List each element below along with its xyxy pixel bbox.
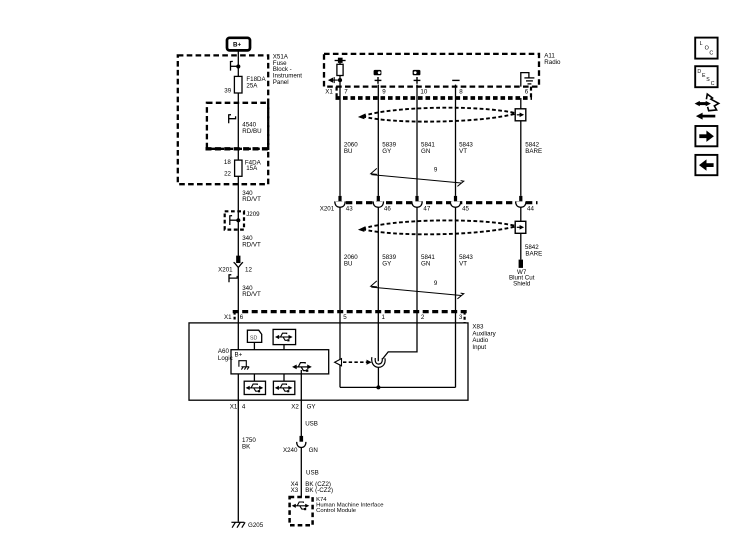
wire 2060 BU X201 to X83 pin 5 and internal run xyxy=(339,207,341,387)
radio internal supply bar at pin 7 xyxy=(335,58,346,65)
X83 connector dashed row xyxy=(233,312,469,323)
svg-text:G205: G205 xyxy=(248,522,264,529)
svg-text:X1: X1 xyxy=(230,403,238,410)
svg-text:1: 1 xyxy=(382,314,386,321)
svg-text:X2: X2 xyxy=(291,403,299,410)
svg-text:X240: X240 xyxy=(283,447,298,454)
svg-text:GN: GN xyxy=(309,447,318,454)
wire 5842 BARE X201 down to shield drain xyxy=(520,207,522,221)
shield ellipse upper xyxy=(358,108,517,122)
svg-text:Control Module: Control Module xyxy=(316,508,357,514)
svg-text:RD/VT: RD/VT xyxy=(242,291,261,298)
svg-text:USB: USB xyxy=(306,470,319,477)
svg-text:5: 5 xyxy=(343,314,347,321)
nav icon swap arrows xyxy=(695,94,719,120)
shield drain box upper xyxy=(515,109,526,121)
X83 row labels xyxy=(224,314,463,321)
svg-text:Radio: Radio xyxy=(544,59,561,66)
nav icon next page xyxy=(695,126,717,146)
svg-text:GY: GY xyxy=(382,260,391,267)
minus sign pin 8 xyxy=(452,79,459,81)
shield clamp to junction xyxy=(377,367,379,387)
X201 inline connector row xyxy=(336,201,538,204)
A11 Radio dashed box xyxy=(324,54,539,87)
plus sign pin 9 xyxy=(375,77,382,84)
X83 Auxiliary Audio Input box xyxy=(189,323,468,400)
terminal below X201 pin 12 xyxy=(229,275,237,283)
X201 pin 47 connector xyxy=(412,196,422,207)
USB port icon lower right xyxy=(273,381,294,394)
connector X240 xyxy=(283,436,318,454)
X201 pin 44 connector xyxy=(516,196,526,207)
svg-text:BU: BU xyxy=(344,148,353,155)
svg-text:Logic: Logic xyxy=(218,355,233,362)
svg-text:4: 4 xyxy=(242,403,246,410)
wire 5842 BARE to blunt cut xyxy=(520,233,522,259)
wire label 340 RD/VT (below J209) xyxy=(242,235,261,248)
wire label 4540 RD/BU xyxy=(242,122,261,135)
shield clamp coil xyxy=(372,357,385,367)
USB symbol inside K74 xyxy=(292,502,310,510)
labels X4 X3 BK (CZ2) xyxy=(291,481,333,494)
junction dot and signal arrow at pin 7 xyxy=(328,77,342,83)
wire X83 pin 1 into shield clamp xyxy=(377,312,379,362)
junction dot on ground bus xyxy=(376,385,380,389)
wire 5843 VT pin 8 down xyxy=(455,85,457,196)
svg-text:X201: X201 xyxy=(218,267,233,274)
label K74 Human Machine Interface Control Module xyxy=(316,497,384,514)
wire label 340 RD/VT (above J209) xyxy=(242,190,261,203)
label X51A Fuse Block - Instrument Panel xyxy=(273,53,303,86)
svg-text:D: D xyxy=(697,69,701,75)
X201 pin 43 connector xyxy=(335,196,345,207)
label A11 Radio xyxy=(544,52,561,66)
svg-text:RD/BU: RD/BU xyxy=(242,128,261,135)
W7 blunt cut shield termination xyxy=(509,260,535,288)
svg-text:GN: GN xyxy=(421,260,430,267)
wire 5842 BARE pin 6 down xyxy=(520,98,522,109)
svg-text:9: 9 xyxy=(434,280,438,287)
svg-text:10: 10 xyxy=(420,89,427,96)
svg-text:3: 3 xyxy=(459,314,463,321)
SD card icon xyxy=(247,330,261,342)
wire X201 pin 12 down to A60 logic box xyxy=(237,268,239,350)
svg-text:Input: Input xyxy=(472,344,486,351)
audio source icon pin 9 xyxy=(374,70,382,75)
svg-text:O: O xyxy=(705,45,709,51)
svg-text:X3: X3 xyxy=(291,487,299,494)
svg-text:18: 18 xyxy=(224,159,231,166)
X51A fuse block inner notch dashed box xyxy=(206,103,269,149)
svg-text:2: 2 xyxy=(421,314,425,321)
audio source icon pin 10 xyxy=(413,70,421,75)
stub A60 to USB port lower right xyxy=(283,374,285,381)
svg-text:VT: VT xyxy=(459,260,467,267)
wire 5839 GY pin 9 down xyxy=(377,85,379,196)
ground G205 xyxy=(231,522,263,529)
X201 row labels xyxy=(320,206,535,213)
svg-text:9: 9 xyxy=(382,89,386,96)
svg-text:SD: SD xyxy=(250,335,258,341)
label X83 Auxiliary Audio Input xyxy=(472,324,496,351)
wire X83 pin 2 elbow to shield clamp xyxy=(383,312,417,359)
wire 5843 VT X201 to X83 pin 3 and internal run xyxy=(455,207,457,387)
svg-text:BK: BK xyxy=(242,444,251,451)
svg-text:43: 43 xyxy=(346,206,353,213)
svg-text:47: 47 xyxy=(423,206,430,213)
X201 pin 46 connector xyxy=(373,196,383,207)
chassis ground symbol inside A60 xyxy=(239,361,249,370)
shield ellipse lower xyxy=(358,220,517,234)
svg-text:Shield: Shield xyxy=(513,280,531,287)
wire 5841 GN X201 to X83 pin 2 xyxy=(416,207,418,311)
svg-text:8: 8 xyxy=(459,89,463,96)
terminal and junction at fuse block input xyxy=(231,61,241,70)
terminal in 4540 section xyxy=(229,115,236,124)
svg-text:X1: X1 xyxy=(224,314,232,321)
wire label 1750 BK xyxy=(242,437,256,451)
radio X1 connector strip xyxy=(336,87,533,98)
svg-text:B+: B+ xyxy=(233,42,241,49)
fuse F4DA 15A xyxy=(224,159,262,178)
splice pack J209 xyxy=(225,211,260,229)
wire labels lower run xyxy=(344,244,542,267)
A60 logic box xyxy=(231,350,329,374)
svg-text:VT: VT xyxy=(459,148,467,155)
svg-text:RD/VT: RD/VT xyxy=(242,241,261,248)
battery B+ symbol xyxy=(227,38,250,51)
stub A60 to USB port lower left xyxy=(253,374,255,381)
USB port icon upper xyxy=(273,329,296,344)
svg-text:Panel: Panel xyxy=(273,79,289,86)
svg-text:GY: GY xyxy=(382,148,391,155)
wire 5842 BARE continues to X201 xyxy=(520,121,522,196)
svg-text:7: 7 xyxy=(344,89,348,96)
wire 5841 GN pin 10 down xyxy=(416,85,418,196)
svg-text:6: 6 xyxy=(240,314,244,321)
plus sign pin 10 xyxy=(414,77,421,84)
svg-text:X201: X201 xyxy=(320,206,335,213)
svg-text:A60: A60 xyxy=(218,348,230,355)
svg-text:BU: BU xyxy=(344,260,353,267)
svg-text:RD/VT: RD/VT xyxy=(242,196,261,203)
svg-text:S: S xyxy=(706,77,710,83)
svg-text:X1: X1 xyxy=(325,89,333,96)
twisted pair callout 9 upper xyxy=(371,167,464,187)
shield drain box lower xyxy=(515,221,526,233)
X201 pin 45 connector xyxy=(450,196,460,207)
connector X201 pin 12 xyxy=(218,256,252,273)
USB symbol inside A60 xyxy=(292,363,312,372)
twisted pair callout 9 lower xyxy=(371,280,464,299)
svg-text:C: C xyxy=(711,81,715,87)
svg-text:22: 22 xyxy=(224,171,231,178)
svg-text:9: 9 xyxy=(434,167,438,174)
stub USB to A60 xyxy=(283,345,285,350)
svg-text:44: 44 xyxy=(527,206,534,213)
USB port icon lower left xyxy=(244,381,265,394)
dashed shield tie with arrows xyxy=(335,359,372,366)
svg-text:C: C xyxy=(709,51,713,57)
svg-text:25A: 25A xyxy=(246,82,258,89)
radio internal resistor at pin 7 xyxy=(337,64,343,75)
svg-text:L: L xyxy=(700,41,703,47)
nav icon DESC xyxy=(695,66,717,87)
svg-text:GY: GY xyxy=(307,403,316,410)
wire X240 to K74 xyxy=(300,448,302,498)
wire B+ feed down through fuse block to X201 pin 12 xyxy=(237,50,239,256)
wire X2 GY to X240 xyxy=(300,370,302,436)
stub SD to A60 xyxy=(253,342,255,349)
nav icon previous page xyxy=(695,155,717,175)
fuse F18DA 25A xyxy=(224,76,266,94)
svg-text:BARE: BARE xyxy=(525,148,542,155)
svg-text:B+: B+ xyxy=(235,351,243,358)
svg-text:15A: 15A xyxy=(246,165,258,172)
svg-text:J209: J209 xyxy=(246,211,260,218)
K74 Human Machine Interface Control Module dashed box xyxy=(290,497,313,525)
radio connector pin labels xyxy=(325,89,528,96)
nav icon LOC xyxy=(695,38,717,59)
svg-text:39: 39 xyxy=(224,87,231,94)
wire labels upper run xyxy=(344,142,542,155)
label A60 Logic xyxy=(218,348,233,362)
wire 2060 BU pin 7 down to X201 xyxy=(339,76,341,196)
internal ground bus line xyxy=(340,386,456,388)
wire label 340 RD/VT (below X201) xyxy=(242,285,261,298)
svg-text:12: 12 xyxy=(245,267,252,274)
svg-text:46: 46 xyxy=(384,206,391,213)
svg-text:6: 6 xyxy=(525,89,529,96)
svg-text:BARE: BARE xyxy=(525,251,542,258)
svg-text:45: 45 xyxy=(462,206,469,213)
X51A fuse block outer dashed box xyxy=(178,55,268,184)
wire 1750 BK from A60 box to G205 xyxy=(237,374,239,522)
svg-text:GN: GN xyxy=(421,148,430,155)
radio internal ground at pin 6 xyxy=(521,73,535,87)
X83 bottom pin labels xyxy=(230,403,316,410)
svg-text:BK (-CZ2): BK (-CZ2) xyxy=(305,487,333,494)
svg-text:USB: USB xyxy=(305,421,318,428)
wire 5839 GY X201 to X83 pin 1 xyxy=(377,207,379,311)
